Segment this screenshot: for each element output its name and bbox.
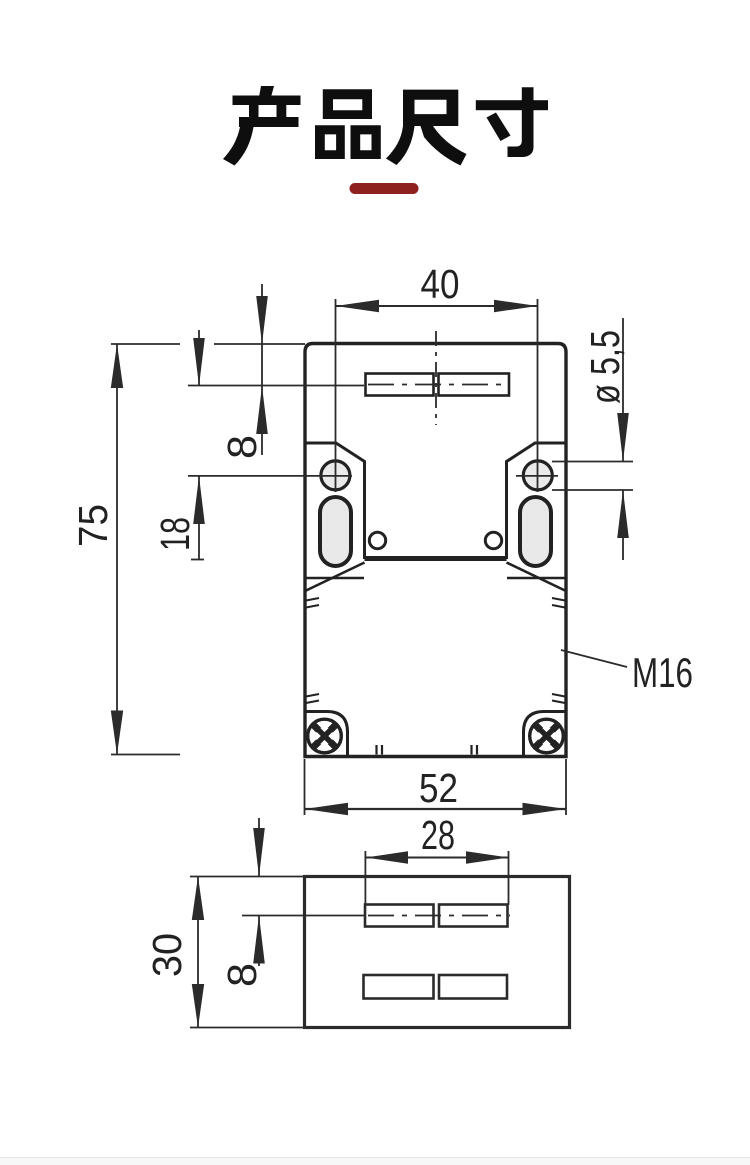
small circle left <box>369 532 385 548</box>
left capsule slot <box>320 497 351 566</box>
top slot <box>366 374 510 396</box>
svg-text:18: 18 <box>152 517 198 551</box>
svg-text:8: 8 <box>219 435 265 459</box>
body top edge extension line <box>214 343 305 345</box>
lower top slot <box>365 905 508 927</box>
bottom-left screw boss <box>306 712 348 756</box>
40 dimension <box>336 261 538 492</box>
52 dimension <box>305 759 567 815</box>
thread tick marks lower left <box>306 694 319 703</box>
30 dimension <box>144 877 304 1028</box>
75 dimension <box>70 344 180 755</box>
left bottom wedge <box>305 563 365 592</box>
thread tick marks lower right <box>552 694 565 703</box>
thread tick marks upper left <box>306 598 319 608</box>
right hole <box>523 461 552 490</box>
red underline bar <box>350 183 419 194</box>
left hole <box>321 461 350 490</box>
hole centerline extension (left, y=476) <box>188 475 352 477</box>
left boss <box>306 443 365 559</box>
lower view body rectangle <box>305 877 570 1028</box>
bottom edge tick pairs <box>377 745 478 755</box>
28 dimension <box>365 812 508 905</box>
slot centerline dashes <box>368 384 506 386</box>
bottom-left screw <box>308 719 342 753</box>
8 dimension (upper) <box>219 284 268 459</box>
svg-text:8: 8 <box>219 963 265 987</box>
slot centerline extension (left) <box>188 385 364 387</box>
M16 leader line <box>561 650 627 667</box>
lower slot centerline extension <box>242 915 364 917</box>
title char 寸 <box>476 87 548 157</box>
svg-text:40: 40 <box>421 261 460 307</box>
8 dimension (lower) <box>219 818 265 987</box>
body outline <box>305 344 566 757</box>
lower slot centerline dashes <box>368 915 510 917</box>
title char 品 <box>315 89 381 159</box>
svg-text:52: 52 <box>419 765 458 811</box>
title char 尺 <box>386 90 467 166</box>
right boss <box>507 443 566 559</box>
lower bottom slot <box>364 975 508 999</box>
bottom-right screw boss <box>524 712 566 756</box>
18 dimension <box>152 330 205 560</box>
svg-text:M16: M16 <box>632 649 693 696</box>
title char 产 <box>223 86 301 166</box>
small circle right <box>485 532 501 548</box>
right capsule slot <box>520 497 551 566</box>
thread tick marks upper right <box>552 598 565 608</box>
bottom-right screw <box>530 719 564 753</box>
svg-text:28: 28 <box>421 812 455 858</box>
svg-text:30: 30 <box>144 933 190 977</box>
right hole crosshair <box>516 475 558 477</box>
bottom light strip <box>0 1158 750 1165</box>
vertical centerline <box>435 331 437 425</box>
svg-text:75: 75 <box>70 504 116 547</box>
front face thick line <box>365 556 507 561</box>
right bottom wedge <box>507 563 567 592</box>
svg-text:ø 5,5: ø 5,5 <box>582 330 628 404</box>
diameter 5,5 dimension <box>552 318 633 560</box>
